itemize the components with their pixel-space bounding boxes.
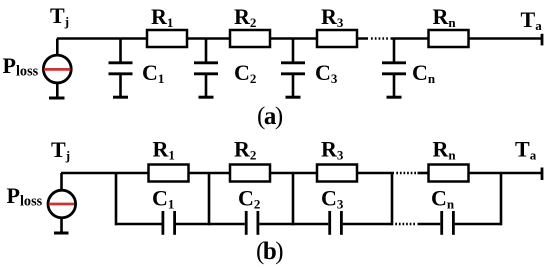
wire: node drop 2 (b) (208, 173, 211, 225)
wire: bottom wire segment 4 (b) (343, 223, 392, 226)
wire: node drop 4 (b) (391, 173, 394, 225)
capacitor C2 (a) (194, 39, 218, 98)
svg-text:R2: R2 (234, 4, 256, 30)
svg-text:C1: C1 (142, 60, 164, 86)
svg-text:C3: C3 (315, 60, 338, 86)
resistor R1 (a) (147, 30, 187, 47)
svg-text:Tj: Tj (51, 137, 70, 163)
wire: bottom wire segment 2 (b) (176, 223, 245, 226)
wire: main bus (a) left solid (57, 37, 368, 40)
wire: bottom wire dotted (b) (395, 223, 416, 226)
svg-text:(b): (b) (256, 238, 283, 265)
current source P_loss (b) (48, 173, 76, 233)
wire: node drop right end (b) (500, 173, 503, 225)
svg-text:Ploss: Ploss (7, 183, 43, 210)
wire: node drop 1 (b) (115, 173, 118, 225)
capacitor C3 (a) (281, 39, 305, 98)
svg-text:R3: R3 (321, 137, 344, 163)
svg-text:R3: R3 (321, 4, 344, 30)
capacitor Cn (b) (442, 211, 454, 235)
wire: main bus (a) dotted section (371, 37, 389, 40)
wire: main bus (b) solid before Rn (418, 172, 430, 175)
capacitor C1 (a) (109, 39, 133, 98)
resistor Rn (a) (429, 30, 469, 47)
svg-text:R1: R1 (153, 137, 175, 163)
current source P_loss (a) (43, 39, 71, 99)
svg-text:C2: C2 (234, 60, 256, 86)
svg-text:C3: C3 (321, 186, 344, 212)
wire: bottom wire solid before Cn (b) (418, 223, 441, 226)
capacitor C2 (b) (246, 211, 258, 235)
svg-text:Ta: Ta (521, 7, 543, 33)
svg-text:C2: C2 (238, 186, 260, 212)
svg-text:Rn: Rn (433, 137, 457, 163)
node Ta terminal tick (b) (541, 168, 544, 181)
svg-text:Cn: Cn (431, 186, 455, 212)
svg-text:Rn: Rn (433, 4, 457, 30)
wire: main bus (b) dotted section (396, 172, 417, 175)
resistor R1 (b) (149, 165, 189, 182)
resistor R3 (b) (317, 165, 357, 182)
capacitor C3 (b) (330, 211, 342, 235)
resistor R2 (b) (230, 165, 270, 182)
capacitor Cn (a) (382, 39, 406, 98)
svg-text:Cn: Cn (412, 60, 436, 86)
wire: main bus (a) right solid (391, 37, 543, 40)
wire: bottom wire segment 1 (b) (116, 223, 162, 226)
node Ta terminal tick (a) (541, 34, 544, 46)
resistor R3 (a) (317, 30, 357, 47)
wire: bottom wire segment 3 (b) (259, 223, 328, 226)
wire: bottom wire segment 5 (b) (455, 223, 501, 226)
resistor Rn (b) (429, 165, 469, 182)
svg-text:R2: R2 (234, 137, 256, 163)
capacitor C1 (b) (163, 211, 175, 235)
svg-text:R1: R1 (151, 4, 173, 30)
wire: main bus (b) left solid (61, 172, 394, 175)
wire: node drop 3 (b) (292, 173, 295, 225)
svg-text:Ploss: Ploss (3, 53, 39, 80)
svg-text:Ta: Ta (515, 137, 537, 163)
svg-text:(a): (a) (257, 103, 283, 130)
resistor R2 (a) (230, 30, 270, 47)
wire: main bus (b) right solid (469, 172, 543, 175)
svg-text:C1: C1 (152, 186, 174, 212)
svg-text:Tj: Tj (50, 3, 69, 29)
